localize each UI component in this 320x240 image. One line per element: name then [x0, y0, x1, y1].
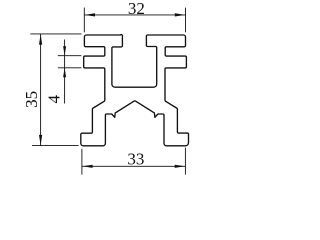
dimension 33 (bottom)	[82, 148, 185, 175]
extension line left (x=81.9)	[81, 149, 83, 175]
dimension line segments	[64, 40, 66, 56]
svg-text:35: 35	[22, 91, 41, 108]
dimension line	[40, 34, 42, 146]
svg-text:32: 32	[128, 0, 145, 18]
arrowheads 32	[85, 13, 96, 16]
dimension 35 (left)	[30, 34, 81, 146]
arrowheads 35	[39, 34, 42, 45]
dimension 4 (left middle)	[58, 40, 82, 104]
dimension line	[82, 165, 185, 167]
extension line bottom (y=145.6)	[32, 145, 79, 147]
dimension 32 (top)	[84, 8, 185, 33]
dimension line	[84, 14, 185, 16]
extension line right (x=185.5)	[185, 8, 187, 33]
svg-text:33: 33	[127, 149, 144, 168]
svg-text:4: 4	[45, 94, 64, 103]
arrowheads 33	[82, 165, 93, 168]
extension line right (x=185.4)	[184, 148, 186, 175]
extension line top (y=55.8)	[58, 55, 82, 57]
extension line left (x=84.4)	[83, 8, 85, 33]
extension line bottom (y=67.8)	[58, 67, 82, 69]
extension line top (y=34.9)	[30, 33, 81, 35]
arrowheads 4 (outside pointing)	[63, 46, 66, 55]
extrusion profile cross-section outline	[81, 35, 189, 146]
